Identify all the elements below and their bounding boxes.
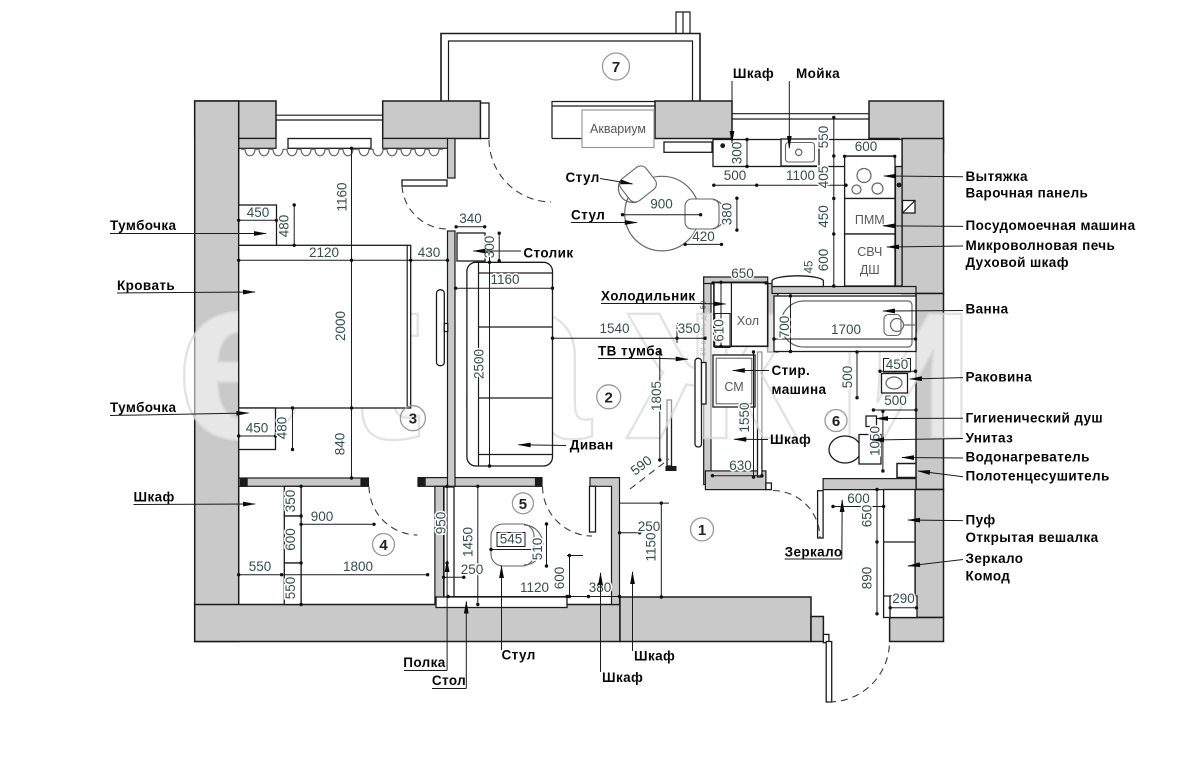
svg-text:Шкаф: Шкаф — [733, 66, 774, 81]
svg-text:510: 510 — [530, 538, 545, 561]
dim 380 chair — [736, 198, 738, 230]
aquarium box — [582, 110, 654, 148]
sofa — [467, 262, 553, 466]
svg-text:250: 250 — [638, 519, 661, 534]
room circle 5 — [512, 493, 533, 514]
dim 1550 — [753, 352, 755, 477]
svg-text:СМ: СМ — [724, 380, 743, 394]
svg-text:Водонагреватель: Водонагреватель — [966, 450, 1090, 465]
svg-text:700: 700 — [777, 316, 792, 339]
svg-text:Посудомоечная машина: Посудомоечная машина — [966, 218, 1136, 233]
toilet tank — [859, 435, 881, 465]
svg-text:550: 550 — [816, 126, 831, 149]
hygienic shower — [866, 416, 877, 427]
svg-text:Столик: Столик — [523, 246, 573, 261]
hob counter — [845, 156, 895, 199]
svg-text:45: 45 — [804, 261, 816, 274]
right exterior wall kitchen level — [902, 139, 944, 294]
svg-text:480: 480 — [275, 417, 290, 440]
jamb room5 door — [535, 478, 542, 487]
dim chain 2120/430 — [239, 259, 448, 261]
room circle 3 — [400, 406, 425, 431]
wall ledge left of bedroom window — [239, 139, 276, 149]
svg-text:650: 650 — [731, 266, 754, 281]
balcony pillar inner line — [682, 12, 684, 34]
wall strip between fridge and bathtub — [768, 284, 778, 353]
exterior wall top-left segment — [195, 101, 276, 139]
svg-text:Стул: Стул — [571, 208, 605, 223]
room 3 door swing arc — [402, 186, 447, 229]
svg-text:Варочная панель: Варочная панель — [966, 186, 1089, 201]
bedroom window sill box — [288, 139, 371, 149]
svg-text:Шкаф: Шкаф — [770, 432, 811, 447]
faucet line — [904, 324, 917, 326]
dim 250 room5 — [444, 576, 464, 578]
svg-text:1450: 1450 — [461, 527, 476, 557]
kitchen counter rounded piece near door — [772, 276, 823, 287]
bathroom sink — [882, 374, 908, 394]
svg-text:Полотенцесушитель: Полотенцесушитель — [966, 469, 1110, 484]
svg-text:Стол: Стол — [432, 673, 466, 688]
balcony window glazing — [552, 101, 655, 103]
svg-text:ТВ тумба: ТВ тумба — [598, 344, 663, 359]
room circle 6 — [825, 410, 847, 432]
dim 290 — [890, 607, 916, 609]
wall between room 4 and room 5 top — [418, 478, 542, 487]
svg-text:2120: 2120 — [309, 245, 339, 260]
svg-text:Стул: Стул — [566, 170, 600, 185]
svg-text:Холодильник: Холодильник — [601, 289, 696, 304]
svg-text:Гигиенический душ: Гигиенический душ — [966, 411, 1104, 426]
svg-text:1050: 1050 — [868, 426, 883, 456]
svg-text:Стир.: Стир. — [772, 363, 811, 378]
sofa cushion line 2 — [479, 397, 553, 399]
svg-text:450: 450 — [246, 421, 269, 436]
svg-text:Шкаф: Шкаф — [602, 670, 643, 685]
wall between room 2 and utility column — [704, 277, 711, 485]
room 4 door swing arc — [369, 487, 418, 536]
bathroom door swing arc — [773, 491, 820, 539]
dining table — [625, 176, 700, 251]
svg-text:890: 890 — [860, 567, 875, 590]
svg-text:900: 900 — [311, 509, 334, 524]
dim 250 room1 — [620, 532, 640, 534]
bottom-right corner wall block at entry — [890, 618, 944, 642]
svg-text:420: 420 — [692, 229, 715, 244]
dim chain 350/600/550 room4 — [300, 486, 302, 604]
desk room 5 — [436, 597, 567, 608]
svg-text:Зеркало: Зеркало — [966, 551, 1024, 566]
towel warmer — [897, 464, 916, 478]
svg-text:ДШ: ДШ — [860, 263, 880, 277]
svg-text:300: 300 — [730, 142, 745, 165]
svg-text:630: 630 — [729, 458, 752, 473]
svg-text:3: 3 — [409, 411, 417, 428]
burner small left — [852, 185, 861, 194]
svg-text:450: 450 — [886, 357, 909, 372]
exterior wall top-right corner segment — [869, 101, 944, 152]
dim 650 kitchen low — [713, 282, 766, 284]
svg-text:600: 600 — [283, 528, 298, 551]
wall between room 3 and room 2 main — [448, 231, 456, 486]
kitchen window glazing — [732, 113, 869, 115]
chair room 5 — [491, 524, 534, 566]
dim 550/405/450/600 kitchen column — [833, 118, 835, 287]
svg-text:машина: машина — [772, 382, 827, 397]
svg-text:2000: 2000 — [333, 311, 348, 341]
bathtub outer — [774, 296, 916, 352]
wall between kitchen and bathroom — [772, 287, 916, 294]
wall between room 3 and room 2 upper stub — [448, 139, 456, 179]
bed inner line — [406, 245, 408, 408]
dot at hob wall — [897, 183, 902, 188]
room 5 door swing arc — [543, 487, 593, 537]
svg-text:Микроволновая печь: Микроволновая печь — [966, 238, 1116, 253]
svg-text:350: 350 — [283, 490, 298, 513]
dim 545 boxed — [497, 533, 525, 547]
sofa cushion line 1 — [479, 326, 553, 328]
wardrobe column room 4 lower — [284, 563, 301, 605]
room circle 2 — [597, 385, 621, 409]
svg-text:Шкаф: Шкаф — [634, 649, 675, 664]
svg-text:6: 6 — [832, 413, 840, 430]
svg-text:545: 545 — [500, 532, 523, 547]
dim 480 nightstand1 — [293, 205, 295, 245]
dim 630 — [713, 475, 762, 477]
dim 450 nightstand1 — [239, 219, 277, 221]
svg-text:Пуф: Пуф — [966, 513, 996, 528]
tv on stand — [702, 363, 707, 405]
svg-text:СВЧ: СВЧ — [857, 245, 882, 259]
hall furniture strip — [884, 490, 915, 618]
dim 500/1100 kitchen — [714, 184, 846, 186]
dim 1160 sofa — [456, 287, 553, 289]
dim 300 counter — [746, 140, 748, 167]
svg-text:Зеркало: Зеркало — [785, 545, 843, 560]
svg-text:600: 600 — [816, 249, 831, 272]
hall strip divider 1 — [884, 541, 915, 543]
dim 510 — [546, 524, 548, 566]
svg-text:500: 500 — [840, 366, 855, 389]
entry door swing arc — [829, 642, 890, 703]
nightstand 2 — [239, 408, 276, 450]
dim chain 550/1800 room4 — [239, 574, 428, 576]
svg-text:1150: 1150 — [644, 532, 659, 561]
svg-text:1160: 1160 — [335, 182, 350, 211]
bedroom TV — [437, 290, 445, 366]
dim 480 nightstand2 — [292, 408, 294, 450]
kitchen counter piece left of window — [664, 142, 712, 152]
svg-text:Комод: Комод — [966, 569, 1011, 584]
svg-text:Шкаф: Шкаф — [134, 490, 175, 505]
dim 950 room5 — [446, 486, 448, 563]
bathroom door jamb left — [766, 483, 772, 490]
svg-text:2500: 2500 — [472, 349, 487, 379]
balcony door swing arc — [489, 140, 551, 202]
svg-text:290: 290 — [892, 591, 915, 606]
svg-text:Раковина: Раковина — [966, 370, 1033, 385]
balcony outer rail — [441, 34, 700, 102]
svg-text:450: 450 — [247, 205, 270, 220]
burner small right — [872, 183, 883, 194]
balcony pillar top right — [676, 12, 690, 34]
svg-text:405: 405 — [816, 166, 831, 189]
svg-text:250: 250 — [461, 562, 484, 577]
svg-text:1540: 1540 — [599, 321, 629, 336]
dim 2500 sofa — [489, 257, 491, 466]
svg-text:1160: 1160 — [490, 272, 519, 287]
room 2 / room 1 wall stub — [667, 400, 672, 466]
svg-text:Тумбочка: Тумбочка — [110, 400, 177, 415]
dim 450 sink boxed — [880, 370, 916, 372]
room circle 7 — [603, 53, 630, 80]
hall strip divider 2 — [884, 595, 915, 597]
bathtub faucet box — [884, 315, 901, 336]
left exterior wall — [195, 101, 239, 642]
sink unit — [781, 139, 819, 166]
svg-text:550: 550 — [283, 577, 298, 600]
dim 420 chair — [685, 243, 721, 245]
niche wall right of washing machine — [758, 352, 762, 477]
chair right of table — [685, 199, 719, 229]
wardrobe column room 4 middle — [284, 516, 301, 563]
balcony window inner face line — [552, 138, 655, 140]
bed — [239, 245, 411, 408]
sofa armrest top — [479, 272, 553, 274]
svg-text:600: 600 — [847, 491, 870, 506]
svg-text:Полка: Полка — [403, 655, 446, 670]
fridge box — [714, 282, 768, 346]
svg-text:550: 550 — [249, 559, 272, 574]
sink basin — [786, 143, 815, 163]
burner large — [857, 169, 871, 183]
svg-text:300: 300 — [482, 236, 497, 259]
svg-text:2: 2 — [605, 389, 613, 406]
exterior wall top segment between balcony window and kitchen window — [655, 101, 732, 139]
shelf room 5 — [444, 487, 454, 597]
svg-text:7: 7 — [612, 59, 620, 76]
dishwasher box — [845, 199, 895, 235]
right exterior wall hall level — [915, 490, 944, 618]
svg-text:Тумбочка: Тумбочка — [110, 218, 177, 233]
wall over fridge — [704, 277, 768, 284]
L-wall between room 5 and room 1 — [590, 478, 620, 605]
side table room 2 — [457, 233, 485, 261]
dim vertical 1160/2000/840 — [351, 148, 353, 478]
svg-text:1550: 1550 — [737, 402, 752, 432]
dresser at entry — [890, 596, 917, 618]
svg-text:Вытяжка: Вытяжка — [966, 169, 1028, 184]
nightstand 1 — [239, 205, 277, 245]
jamb room3/4 wall right — [360, 478, 368, 487]
tv stand room 2 — [695, 358, 702, 447]
balcony window left edge — [551, 101, 553, 139]
dim 500 under sink — [873, 409, 916, 411]
svg-text:950: 950 — [434, 512, 449, 535]
dim 340 side table — [456, 226, 485, 228]
dim chain 1540/350 — [553, 337, 706, 339]
svg-text:Ванна: Ванна — [966, 302, 1009, 317]
svg-text:480: 480 — [277, 215, 292, 238]
svg-text:ПММ: ПММ — [855, 213, 885, 227]
svg-text:Открытая вешалка: Открытая вешалка — [966, 530, 1099, 545]
room circle 1 — [691, 518, 714, 541]
washing machine — [713, 355, 755, 407]
svg-text:1805: 1805 — [649, 381, 664, 411]
svg-text:450: 450 — [816, 205, 831, 228]
svg-text:500: 500 — [884, 393, 907, 408]
dim 500 bath left — [856, 352, 858, 398]
jamb room4 door — [418, 478, 426, 487]
right exterior wall bath level — [916, 294, 944, 490]
dim 650/890 hall — [876, 490, 878, 614]
balcony door jamb — [481, 103, 490, 139]
bathtub drain circle — [891, 319, 904, 332]
svg-text:Духовой шкаф: Духовой шкаф — [966, 255, 1069, 270]
dim 600 hob — [845, 155, 895, 157]
room 2 opening dashed line — [630, 459, 669, 489]
dot on counter left — [720, 143, 725, 148]
jamb room3/4 wall left — [240, 478, 248, 487]
bathroom door leaf — [818, 491, 824, 538]
TV bracket — [444, 324, 447, 332]
dim 900 room4 — [301, 523, 374, 525]
kitchen counter under window — [713, 140, 902, 167]
svg-text:340: 340 — [459, 211, 482, 226]
svg-text:1100: 1100 — [786, 168, 815, 183]
sofa back line — [478, 263, 480, 466]
dim 700 bathtub — [790, 296, 792, 352]
dim 1050 — [882, 411, 884, 471]
dim 1450 room5 — [477, 486, 479, 604]
svg-text:Диван: Диван — [570, 438, 614, 453]
wall between room 4 and room 5 vertical — [435, 486, 444, 604]
bottom exterior wall mid segment — [620, 597, 811, 642]
dim 1805 — [659, 352, 661, 460]
svg-text:1: 1 — [698, 522, 706, 539]
svg-text:Стул: Стул — [502, 648, 536, 663]
svg-text:500: 500 — [724, 168, 747, 183]
dim 1150 room1 — [660, 503, 662, 597]
bottom exterior wall left segment — [195, 605, 620, 642]
room 5 door leaf — [590, 486, 596, 532]
bedroom window glazing — [276, 114, 383, 116]
dim 450 nightstand2 — [239, 435, 276, 437]
svg-text:1800: 1800 — [343, 559, 373, 574]
svg-text:5: 5 — [519, 496, 527, 513]
wall ledge right of bedroom window — [383, 139, 448, 149]
svg-text:Унитаз: Унитаз — [966, 431, 1014, 446]
svg-text:1700: 1700 — [831, 322, 861, 337]
svg-text:610: 610 — [712, 319, 727, 342]
sink drain circle — [796, 149, 802, 155]
svg-text:600: 600 — [552, 567, 567, 590]
microwave oven box — [845, 234, 895, 286]
dim 900 table — [623, 214, 701, 216]
curtain line bedroom — [241, 149, 443, 156]
svg-text:430: 430 — [418, 245, 441, 260]
vent shaft symbol — [903, 201, 916, 214]
svg-text:4: 4 — [379, 537, 388, 554]
chair right back arc — [713, 200, 726, 229]
dim 610 fridge — [720, 282, 722, 346]
chair room5 back arc — [524, 525, 543, 565]
svg-text:650: 650 — [860, 505, 875, 528]
balcony inner rail — [449, 41, 693, 101]
svg-text:Кровать: Кровать — [117, 278, 175, 293]
svg-text:380: 380 — [720, 203, 735, 226]
toilet bowl — [829, 436, 861, 463]
svg-text:900: 900 — [650, 197, 673, 212]
exterior wall top segment between bedroom window and balcony door — [383, 101, 481, 139]
room 3 door leaf — [402, 180, 447, 186]
kitchen column back strip — [896, 156, 903, 286]
sofa armrest bottom — [479, 454, 553, 456]
entry door leaf — [826, 642, 832, 703]
svg-text:600: 600 — [855, 139, 878, 154]
bathtub inner — [781, 301, 912, 347]
room circle 4 — [373, 534, 395, 556]
wall between room 3 and room 4 — [239, 478, 369, 486]
fridge inner line — [730, 282, 732, 346]
entry door jamb notch — [823, 634, 829, 642]
dim 600 desk — [569, 556, 571, 597]
dim 1120/380 chain — [448, 596, 620, 598]
svg-text:Мойка: Мойка — [796, 66, 840, 81]
chair top-left rotated — [613, 163, 659, 208]
dim 600 hall — [833, 506, 884, 508]
svg-text:Аквариум: Аквариум — [590, 122, 646, 136]
svg-text:Хол: Хол — [737, 314, 759, 328]
dim 300 side table — [498, 233, 500, 261]
dim 1700 bathtub — [774, 338, 916, 340]
svg-text:1120: 1120 — [520, 580, 549, 595]
bathroom bottom wall left part — [705, 471, 766, 490]
svg-text:350: 350 — [678, 321, 701, 336]
bathroom bottom wall right part — [823, 479, 916, 490]
svg-text:840: 840 — [333, 433, 348, 456]
cap of room2/1 stub — [666, 466, 677, 471]
bottom wall step at entry — [811, 617, 823, 642]
vent shaft diagonal — [903, 201, 916, 214]
wardrobe column room 4 upper — [284, 486, 301, 516]
